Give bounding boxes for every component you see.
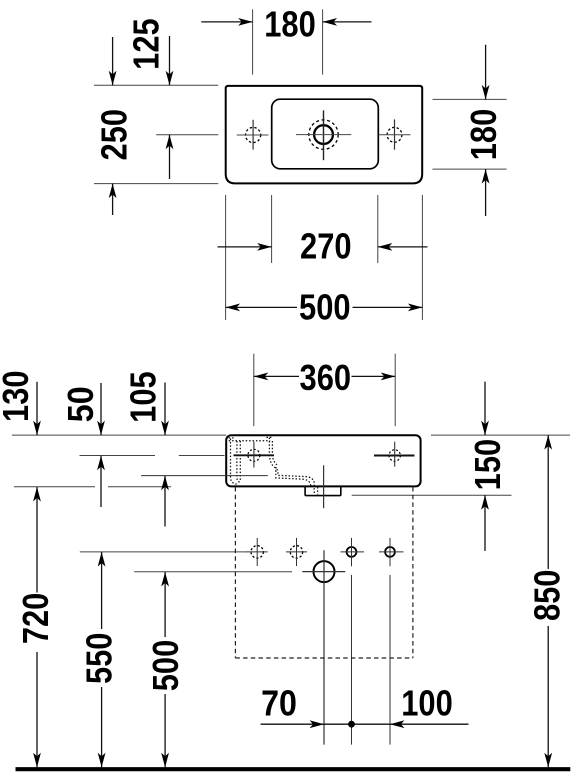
dim 550 line lower [98, 687, 106, 767]
dim 500 right arrow [353, 304, 423, 312]
svg-text:150: 150 [467, 439, 508, 491]
mount hole 4 solid circle [385, 547, 395, 557]
dim 850 line lower [544, 626, 552, 767]
plan right tap hole crosshair horizontal [379, 134, 411, 136]
dim 50 top arrow [97, 383, 105, 435]
dim 70 label [261, 683, 297, 724]
dim 150 bottom arrow [481, 495, 489, 551]
svg-text:270: 270 [300, 226, 352, 267]
drain outlet box [305, 486, 341, 495]
dim 720 line upper [33, 487, 41, 593]
front bottom edge extension b [108, 486, 171, 488]
dim point dot [348, 721, 355, 728]
front right tap hole crosshair horizontal [374, 455, 415, 457]
svg-text:180: 180 [463, 109, 504, 161]
dim 100 right arrow [390, 720, 469, 728]
dim 105 label [123, 371, 164, 423]
plan centre faucet hole solid circle [314, 125, 333, 144]
drain circle vertical line [323, 550, 325, 744]
mount hole 3 extension down [351, 575, 353, 745]
dim 250 bottom arrow [109, 184, 117, 215]
svg-text:500: 500 [299, 287, 351, 328]
hidden section rim upper-left bit [229, 437, 235, 439]
dim 850 line upper [544, 435, 552, 569]
dim 500 line upper [161, 572, 169, 637]
dim 250 top arrow [109, 37, 117, 85]
svg-text:550: 550 [79, 633, 120, 685]
plan right tap hole dashed circle [387, 127, 402, 142]
mount hole 2 crosshair [286, 538, 307, 566]
dim 720 label [15, 593, 56, 645]
dim 270 extension line left [271, 195, 273, 263]
hidden section left wall inner dotted [237, 441, 241, 482]
svg-text:720: 720 [15, 593, 56, 645]
dim 360 extension line left [253, 354, 255, 427]
dim 550 line upper [98, 552, 106, 629]
dim 50 label [60, 386, 101, 422]
hidden drain pipe dotted [317, 487, 319, 494]
drain circle [314, 561, 335, 582]
dim 270 left arrow [218, 243, 272, 251]
mount hole 3 crosshair [341, 538, 365, 566]
plan hole centreline extension [156, 134, 218, 136]
dim 130 top arrow [33, 382, 41, 435]
hidden section rim upper-right bit [267, 436, 272, 438]
plan right tap hole crosshair vertical [394, 119, 396, 149]
svg-text:70: 70 [261, 683, 297, 724]
svg-text:125: 125 [126, 18, 167, 70]
dim 150 label [467, 439, 508, 491]
dim 250 label [94, 109, 135, 161]
dim 550 label [79, 633, 120, 685]
drain 500 level line [134, 571, 292, 573]
washbasin front view outline [226, 435, 420, 486]
front left tap hole crosshair horizontal [234, 454, 275, 456]
dim 360 extension line right [394, 354, 396, 427]
dim 125 bottom arrow [166, 135, 174, 179]
dim 150 top arrow [481, 382, 489, 436]
dim 500 vertical label [145, 640, 186, 692]
dim 500 line lower [161, 694, 169, 767]
dim 70-100 middle line [324, 723, 390, 725]
plan left tap hole dashed circle [246, 127, 261, 142]
plan left tap hole crosshair vertical [252, 120, 254, 150]
svg-text:500: 500 [145, 640, 186, 692]
pedestal dashed right edge [412, 487, 414, 658]
drain centreline front [323, 465, 325, 508]
mount hole 1 dashed circle [251, 546, 263, 558]
dim 180 top left arrow [201, 18, 252, 26]
dim 500 extension line left [225, 195, 227, 320]
dim 360 left arrow [254, 373, 299, 381]
plan centre faucet crosshair horizontal [296, 134, 351, 136]
svg-text:850: 850 [527, 570, 568, 622]
dim 180 right bottom arrow [482, 169, 490, 216]
svg-text:50: 50 [60, 386, 101, 422]
dim 125 label [126, 18, 167, 70]
dim 70 left arrow [261, 720, 324, 728]
mount hole 4 extension down [389, 575, 391, 745]
front top edge extension left [12, 434, 226, 436]
pedestal dashed left edge [234, 487, 236, 658]
dim 270 right arrow [378, 243, 428, 251]
dim 105 bottom arrow [161, 476, 169, 527]
plan bowl inner outline [272, 99, 379, 169]
drain circle crosshair horizontal [302, 571, 345, 573]
dim 270 extension line right [377, 195, 379, 263]
dim 180 top right arrow [323, 18, 372, 26]
plan bowl bottom extension right [433, 168, 507, 170]
dim 180 right label [463, 109, 504, 161]
svg-text:105: 105 [123, 371, 164, 423]
front top edge extension right [431, 434, 570, 436]
front outlet bottom 150 level line [352, 494, 512, 496]
dim 180 top extension line right [322, 9, 324, 74]
mount hole 3 solid circle [347, 547, 357, 557]
dim 360 right arrow [352, 373, 396, 381]
front hole level line a [80, 455, 156, 457]
svg-text:130: 130 [0, 370, 36, 422]
plan top edge extension line [94, 84, 218, 86]
hidden section left wall outer dotted [231, 439, 238, 485]
front left tap hole crosshair vertical [253, 442, 255, 468]
front inner bottom 105 level line [141, 475, 268, 477]
dim 270 label [300, 226, 352, 267]
front bottom edge extension a [14, 486, 95, 488]
dim 130 label [0, 370, 36, 422]
svg-text:360: 360 [300, 357, 352, 398]
dim 180 top extension line left [252, 9, 254, 74]
plan centre faucet crosshair vertical [323, 110, 325, 160]
hidden section left wall third dotted [239, 441, 241, 481]
plan bowl top extension right [433, 98, 507, 100]
svg-text:250: 250 [94, 109, 135, 161]
dim 850 label [527, 570, 568, 622]
plan left tap hole crosshair horizontal [237, 134, 269, 136]
dim 500 left arrow [226, 304, 297, 312]
front right tap hole dashed circle [389, 450, 400, 461]
plan centre faucet hole dashed circle [309, 120, 338, 149]
front left tap hole dashed circle [248, 449, 260, 461]
dim 500 extension line right [421, 195, 423, 320]
svg-text:180: 180 [264, 3, 316, 44]
ground line [16, 767, 571, 771]
front right tap hole crosshair vertical [394, 442, 396, 467]
dim 50 bottom arrow [97, 456, 105, 507]
dim 100 label [401, 683, 453, 724]
svg-text:100: 100 [401, 683, 453, 724]
hidden section rim dotted [229, 440, 271, 442]
dim 125 top arrow [166, 36, 174, 85]
mount hole 1 crosshair [247, 538, 268, 566]
dim 180 top label [264, 3, 316, 44]
washbasin plan view outline [226, 86, 423, 183]
front hole level line b [179, 455, 225, 457]
mount hole 4 crosshair [379, 538, 404, 566]
dim 360 label [300, 357, 352, 398]
mounting holes 550 level line [80, 551, 248, 553]
dim 500 label [299, 287, 351, 328]
dim 105 top arrow [161, 383, 169, 436]
mount hole 2 dashed circle [290, 546, 302, 558]
hidden bowl wall inner dotted [272, 441, 310, 486]
plan bottom edge extension line [94, 183, 218, 185]
hidden bowl wall outer dotted [269, 438, 314, 494]
dim 180 right top arrow [482, 45, 490, 100]
dim 720 line lower [33, 652, 41, 767]
pedestal dashed bottom edge [235, 657, 413, 659]
